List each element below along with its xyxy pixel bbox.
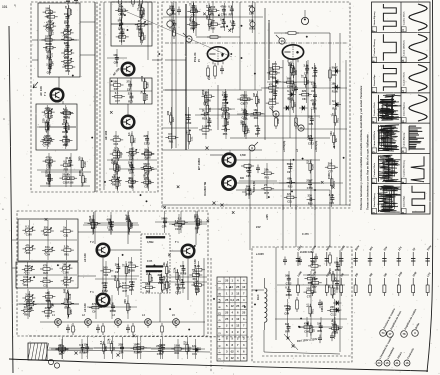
svg-text:390: 390 bbox=[115, 262, 120, 266]
svg-text:R91: R91 bbox=[307, 79, 310, 84]
svg-text:C140: C140 bbox=[119, 40, 126, 43]
svg-text:10: 10 bbox=[401, 150, 405, 154]
svg-text:220: 220 bbox=[144, 177, 149, 181]
svg-text:25: 25 bbox=[225, 311, 228, 315]
mains switch bbox=[284, 334, 298, 350]
svg-text:0,1: 0,1 bbox=[129, 177, 133, 181]
delay bar 3 bbox=[146, 270, 162, 272]
front controls row 1 bbox=[380, 308, 421, 338]
bus y150 bbox=[162, 149, 262, 151]
svg-text:C284 4kV: C284 4kV bbox=[321, 301, 324, 312]
svg-text:+230V(m): +230V(m) bbox=[315, 141, 318, 152]
svg-text:Cuadro 50c/s: Cuadro 50c/s bbox=[374, 162, 376, 177]
svg-text:T 2: T 2 bbox=[90, 240, 94, 244]
svg-text:Cuadro 50c/s: Cuadro 50c/s bbox=[374, 102, 376, 117]
svg-text:C112: C112 bbox=[120, 151, 123, 157]
svg-text:3,9k: 3,9k bbox=[118, 5, 124, 9]
wire down bbox=[249, 150, 251, 250]
IF lower parts bbox=[107, 131, 157, 189]
IF1 parts bbox=[111, 3, 152, 45]
svg-text:C140: C140 bbox=[84, 161, 87, 168]
svg-text:+275V(m): +275V(m) bbox=[283, 141, 286, 152]
svg-text:C140: C140 bbox=[228, 112, 231, 119]
wire bbox=[159, 293, 161, 322]
waveform cell 13 bbox=[401, 34, 427, 63]
wire bbox=[175, 2, 177, 148]
svg-text:0,1: 0,1 bbox=[122, 281, 126, 285]
svg-text:220: 220 bbox=[243, 94, 248, 98]
svg-text:12: 12 bbox=[231, 304, 234, 308]
svg-text:10n: 10n bbox=[243, 109, 248, 113]
IF line transistor Q1 bbox=[55, 319, 62, 328]
svg-text:C112: C112 bbox=[331, 314, 337, 317]
svg-text:R91: R91 bbox=[24, 314, 29, 317]
svg-text:C84: C84 bbox=[119, 351, 124, 354]
V1 lower parts bbox=[199, 89, 235, 129]
caption line 2 bbox=[366, 134, 370, 210]
video right extra bbox=[261, 63, 347, 113]
svg-text:Linea 15625c/s: Linea 15625c/s bbox=[403, 39, 405, 55]
svg-text:R108: R108 bbox=[312, 164, 315, 171]
transistor T3 AF106 bbox=[122, 116, 135, 129]
svg-text:C31: C31 bbox=[210, 14, 215, 17]
bottom parts 3 bbox=[151, 339, 205, 359]
svg-text:12k: 12k bbox=[113, 53, 118, 57]
svg-text:Cuadro 50c/s: Cuadro 50c/s bbox=[403, 11, 405, 26]
svg-text:C77: C77 bbox=[129, 172, 134, 175]
svg-text:100: 100 bbox=[221, 114, 225, 119]
svg-text:4700: 4700 bbox=[284, 304, 290, 308]
D extra 1 bbox=[83, 215, 139, 235]
svg-text:12: 12 bbox=[231, 356, 234, 360]
svg-text:C112: C112 bbox=[59, 352, 65, 355]
svg-text:AF 139: AF 139 bbox=[83, 303, 87, 312]
svg-text:5600: 5600 bbox=[161, 217, 167, 221]
dashed separator bbox=[210, 258, 212, 372]
svg-text:1k: 1k bbox=[202, 109, 205, 113]
IF extra parts bbox=[111, 5, 151, 43]
label BY138 bbox=[197, 158, 201, 170]
wire bbox=[62, 101, 64, 104]
wire bbox=[165, 60, 186, 90]
right cluster bbox=[279, 159, 343, 207]
svg-text:27: 27 bbox=[136, 7, 140, 10]
svg-text:50µF: 50µF bbox=[25, 264, 32, 268]
svg-text:27: 27 bbox=[144, 164, 147, 168]
svg-text:68k: 68k bbox=[128, 261, 133, 265]
svg-text:470: 470 bbox=[272, 62, 277, 66]
wire dashdot bbox=[165, 42, 348, 44]
wire bbox=[229, 150, 231, 153]
svg-text:0,5: 0,5 bbox=[64, 135, 68, 139]
tuner extra parts bbox=[41, 9, 77, 71]
tuner bottom extra bbox=[41, 156, 91, 187]
svg-text:3,9k: 3,9k bbox=[144, 149, 150, 153]
label T2 bbox=[112, 67, 121, 77]
transistor T6 AF139 bbox=[97, 244, 110, 257]
D right parts bbox=[169, 214, 207, 234]
svg-text:R91: R91 bbox=[46, 183, 51, 186]
svg-text:R55: R55 bbox=[258, 98, 261, 103]
svg-text:2,2k: 2,2k bbox=[45, 23, 49, 29]
svg-text:R108: R108 bbox=[134, 352, 141, 355]
waveform cell 7 bbox=[371, 4, 396, 32]
svg-text:18k: 18k bbox=[264, 168, 269, 172]
D right lower bbox=[167, 267, 207, 295]
svg-text:560: 560 bbox=[169, 4, 174, 8]
tuner mixer parts bbox=[37, 105, 76, 149]
svg-text:220: 220 bbox=[302, 89, 307, 93]
svg-text:0,1: 0,1 bbox=[127, 132, 131, 136]
transistor T4 BY138 bbox=[223, 154, 236, 167]
svg-text:C 270: C 270 bbox=[302, 233, 309, 236]
svg-text:390: 390 bbox=[328, 162, 333, 166]
wire bbox=[127, 211, 129, 244]
svg-text:1k: 1k bbox=[63, 226, 66, 230]
yoke coil DAC bbox=[265, 278, 267, 330]
svg-text:5600: 5600 bbox=[46, 159, 52, 163]
svg-text:100: 100 bbox=[222, 124, 227, 128]
tuner lower extra bbox=[39, 107, 76, 147]
D extra 6 bbox=[19, 291, 79, 317]
wire bbox=[236, 159, 320, 161]
svg-text:0,5: 0,5 bbox=[63, 160, 67, 164]
junction x marks bbox=[45, 13, 335, 338]
svg-text:1500: 1500 bbox=[333, 279, 339, 283]
svg-text:R55: R55 bbox=[151, 276, 154, 281]
svg-text:R55: R55 bbox=[26, 252, 31, 255]
wire bbox=[110, 249, 141, 251]
caption line 1 bbox=[359, 85, 363, 210]
svg-text:Cuadro 20mseg: Cuadro 20mseg bbox=[374, 39, 376, 56]
wire bbox=[195, 5, 197, 36]
svg-text:C84: C84 bbox=[114, 62, 119, 65]
bottom parts 2 bbox=[94, 337, 151, 359]
svg-text:10n: 10n bbox=[329, 131, 333, 136]
svg-text:13: 13 bbox=[401, 59, 405, 63]
paper bottom edge bbox=[9, 359, 428, 371]
svg-text:220: 220 bbox=[123, 299, 127, 304]
svg-text:47k: 47k bbox=[45, 107, 49, 112]
svg-text:C77: C77 bbox=[195, 273, 200, 276]
svg-text:C77: C77 bbox=[46, 168, 51, 171]
resistor 500ohm bbox=[289, 297, 298, 312]
svg-text:560: 560 bbox=[103, 265, 108, 269]
tube V1 PCL84 triode bbox=[207, 47, 228, 65]
svg-text:2,2k: 2,2k bbox=[208, 75, 211, 80]
E top labels bbox=[256, 251, 314, 256]
svg-text:50µF: 50µF bbox=[332, 65, 339, 69]
pots A bbox=[19, 220, 77, 260]
svg-text:0,1: 0,1 bbox=[222, 93, 226, 97]
svg-text:R61: R61 bbox=[128, 268, 131, 273]
transistor T8 AF139 bbox=[97, 294, 110, 307]
D mid parts bbox=[111, 257, 139, 295]
svg-text:R47: R47 bbox=[335, 137, 338, 142]
svg-text:C31: C31 bbox=[144, 186, 149, 189]
wire bbox=[40, 321, 205, 323]
bottom extra bbox=[49, 337, 201, 359]
svg-text:330: 330 bbox=[289, 63, 293, 68]
mid parts bbox=[241, 165, 260, 174]
waveform cell 4 bbox=[371, 95, 401, 123]
svg-text:1k: 1k bbox=[140, 90, 144, 93]
svg-text:R91: R91 bbox=[332, 108, 337, 111]
wire bbox=[78, 275, 96, 277]
wire bbox=[32, 22, 95, 60]
IF line transistor Q4 bbox=[145, 319, 152, 328]
D extra 4 bbox=[159, 261, 207, 293]
svg-text:560: 560 bbox=[46, 7, 51, 11]
svg-text:0,5: 0,5 bbox=[182, 341, 186, 345]
svg-text:R23: R23 bbox=[145, 173, 150, 176]
svg-text:25: 25 bbox=[225, 298, 228, 302]
svg-text:R23: R23 bbox=[168, 283, 171, 288]
svg-text:C77: C77 bbox=[129, 305, 132, 310]
svg-text:68k: 68k bbox=[46, 174, 51, 178]
svg-text:10n: 10n bbox=[84, 343, 89, 347]
wire bbox=[307, 60, 309, 138]
svg-text:4700: 4700 bbox=[119, 27, 125, 31]
svg-text:R55: R55 bbox=[295, 70, 298, 75]
wire bbox=[102, 256, 104, 294]
svg-text:3,9k: 3,9k bbox=[23, 275, 29, 279]
svg-text:12: 12 bbox=[231, 350, 234, 354]
svg-text:4700: 4700 bbox=[113, 134, 119, 138]
svg-text:C84: C84 bbox=[249, 13, 254, 16]
wire bbox=[152, 59, 162, 61]
waveform cell 12 bbox=[401, 65, 427, 94]
svg-text:0,4: 0,4 bbox=[218, 298, 222, 302]
transistor T2 AF200 bbox=[122, 63, 135, 76]
D top parts bbox=[84, 212, 138, 234]
svg-text:12: 12 bbox=[242, 285, 245, 289]
svg-text:C140: C140 bbox=[170, 13, 177, 16]
waveform cell 10 bbox=[401, 126, 425, 154]
E bottom caps bbox=[318, 333, 334, 344]
wire bbox=[210, 154, 223, 156]
svg-text:100: 100 bbox=[64, 27, 69, 31]
svg-text:R23: R23 bbox=[189, 346, 192, 351]
wire bbox=[94, 2, 96, 192]
svg-text:0,5: 0,5 bbox=[178, 217, 182, 221]
wire bbox=[254, 2, 256, 90]
svg-text:R108: R108 bbox=[70, 9, 73, 16]
frame IF1 bbox=[111, 2, 152, 46]
svg-text:C31: C31 bbox=[287, 201, 292, 204]
svg-text:o: o bbox=[2, 207, 4, 211]
svg-text:Todas las tensiones y corrient: Todas las tensiones y corrientes medidas… bbox=[359, 85, 363, 210]
block box IF amp bbox=[100, 2, 158, 192]
svg-text:10n: 10n bbox=[45, 245, 50, 249]
svg-text:C84: C84 bbox=[47, 71, 52, 74]
svg-text:C77: C77 bbox=[312, 286, 317, 289]
svg-text:4700: 4700 bbox=[209, 5, 215, 9]
svg-text:0,4: 0,4 bbox=[230, 298, 234, 302]
paper left edge bbox=[9, 26, 13, 373]
delay parts bbox=[142, 271, 169, 294]
transistor T5 OC26 bbox=[222, 176, 235, 189]
wire bbox=[252, 289, 264, 291]
svg-text:C31: C31 bbox=[43, 285, 48, 288]
svg-text:0,5: 0,5 bbox=[168, 132, 172, 136]
IF2 parts bbox=[110, 75, 152, 104]
svg-text:R91: R91 bbox=[129, 186, 134, 189]
frame tuner mixer bbox=[36, 104, 77, 150]
front controls row 2 bbox=[376, 336, 415, 366]
labels volts bbox=[283, 141, 318, 152]
waveform cell 6 bbox=[371, 34, 396, 62]
svg-text:BY 138/II: BY 138/II bbox=[197, 158, 201, 170]
svg-text:C31: C31 bbox=[202, 133, 207, 136]
wire bbox=[262, 355, 352, 357]
svg-text:R108: R108 bbox=[332, 332, 339, 335]
svg-text:68k: 68k bbox=[64, 56, 69, 60]
svg-text:390: 390 bbox=[193, 214, 197, 219]
svg-text:R91: R91 bbox=[195, 7, 198, 12]
svg-text:0,1: 0,1 bbox=[305, 303, 309, 307]
waveform cell 8 bbox=[401, 186, 425, 214]
svg-text:100: 100 bbox=[166, 110, 170, 115]
wire bbox=[275, 247, 277, 340]
corner marks bbox=[2, 3, 16, 9]
test point 11 bbox=[270, 108, 279, 117]
svg-text:R61: R61 bbox=[133, 137, 136, 142]
wire bbox=[58, 77, 60, 88]
svg-text:25: 25 bbox=[225, 317, 228, 321]
wire bbox=[12, 240, 17, 268]
svg-text:5600: 5600 bbox=[287, 162, 293, 166]
video left lower parts bbox=[162, 107, 198, 149]
wire bbox=[239, 2, 241, 90]
svg-text:50µF: 50µF bbox=[162, 275, 166, 282]
wire bbox=[289, 62, 291, 138]
svg-text:R47: R47 bbox=[129, 158, 134, 161]
svg-text:0,1: 0,1 bbox=[44, 297, 48, 301]
svg-text:R55: R55 bbox=[221, 26, 226, 29]
waveform cell 14 bbox=[401, 4, 427, 33]
svg-text:R47: R47 bbox=[84, 351, 89, 354]
svg-text:560: 560 bbox=[119, 9, 124, 13]
svg-text:R23: R23 bbox=[43, 272, 48, 275]
svg-text:12: 12 bbox=[236, 317, 239, 321]
wire to PSU 3 bbox=[314, 205, 316, 247]
svg-text:R47: R47 bbox=[114, 88, 119, 91]
svg-text:C112: C112 bbox=[308, 143, 314, 146]
svg-text:C84: C84 bbox=[312, 75, 317, 78]
svg-text:C84: C84 bbox=[246, 175, 251, 178]
svg-text:5600: 5600 bbox=[46, 42, 52, 46]
svg-text:R108: R108 bbox=[180, 273, 187, 276]
tube V2 PCL84 pentode bbox=[282, 45, 303, 63]
legend resistor wattages bbox=[296, 270, 432, 296]
svg-text:47k: 47k bbox=[222, 108, 226, 113]
svg-text:R61: R61 bbox=[146, 291, 151, 294]
pots B bbox=[17, 262, 77, 288]
svg-text:Linea 64µseg: Linea 64µseg bbox=[373, 193, 376, 207]
svg-text:T 1: T 1 bbox=[90, 290, 94, 294]
svg-text:R91: R91 bbox=[243, 118, 248, 121]
wire bbox=[203, 258, 205, 336]
transformer TR1 bbox=[28, 343, 49, 360]
res bbox=[275, 115, 298, 129]
svg-text:24V: 24V bbox=[256, 225, 261, 229]
wire bbox=[236, 182, 320, 184]
svg-text:3,9k: 3,9k bbox=[246, 166, 252, 170]
svg-text:25: 25 bbox=[218, 292, 222, 295]
IF line transistor Q5 bbox=[173, 319, 180, 328]
svg-text:C112: C112 bbox=[195, 22, 198, 28]
svg-text:0,5W: 0,5W bbox=[240, 154, 246, 157]
svg-text:R91: R91 bbox=[44, 234, 49, 237]
svg-text:12k: 12k bbox=[192, 344, 197, 348]
svg-text:R47: R47 bbox=[123, 290, 128, 293]
svg-text:3,9k: 3,9k bbox=[311, 81, 317, 85]
tuner lower parts bbox=[37, 153, 83, 187]
svg-text:C112: C112 bbox=[102, 290, 108, 293]
FI coils bbox=[167, 7, 181, 40]
svg-text:R108: R108 bbox=[332, 90, 339, 93]
svg-text:27: 27 bbox=[205, 5, 209, 8]
svg-text:101: 101 bbox=[2, 5, 8, 9]
svg-text:C140: C140 bbox=[45, 143, 52, 146]
svg-text:220: 220 bbox=[308, 114, 313, 118]
wire bbox=[264, 8, 266, 140]
svg-text:27: 27 bbox=[127, 80, 130, 84]
valve data table bbox=[217, 277, 247, 361]
circle top right bbox=[301, 10, 308, 25]
svg-text:600: 600 bbox=[240, 177, 245, 180]
svg-text:C77: C77 bbox=[269, 106, 274, 109]
svg-text:1500: 1500 bbox=[327, 173, 331, 179]
wire bbox=[345, 60, 347, 205]
svg-text:R61: R61 bbox=[178, 226, 183, 229]
svg-text:220: 220 bbox=[128, 92, 133, 96]
svg-text:C31: C31 bbox=[63, 181, 68, 184]
antenna arrow bbox=[33, 82, 38, 88]
svg-text:R55: R55 bbox=[84, 177, 87, 182]
test point 7 bbox=[183, 33, 192, 42]
svg-text:C31: C31 bbox=[191, 136, 194, 141]
svg-text:R23: R23 bbox=[142, 31, 145, 36]
svg-text:100k: 100k bbox=[277, 118, 280, 124]
waveform cell 11 bbox=[401, 95, 427, 123]
V1 cathode parts bbox=[207, 63, 224, 80]
label T3 bbox=[104, 130, 108, 140]
svg-text:C140: C140 bbox=[311, 107, 318, 110]
label DAC bbox=[256, 294, 260, 300]
svg-text:R61: R61 bbox=[66, 70, 71, 73]
wire bbox=[147, 2, 149, 60]
resistor top bbox=[274, 32, 330, 35]
svg-text:C112: C112 bbox=[175, 292, 181, 295]
svg-text:R47: R47 bbox=[195, 228, 200, 231]
svg-text:C140: C140 bbox=[221, 14, 228, 17]
svg-text:0,1: 0,1 bbox=[228, 5, 232, 9]
svg-text:+205: +205 bbox=[266, 214, 269, 220]
svg-text:R55: R55 bbox=[223, 133, 228, 136]
svg-text:R55: R55 bbox=[64, 284, 69, 287]
svg-text:4700: 4700 bbox=[140, 75, 144, 81]
svg-text:C77: C77 bbox=[328, 170, 333, 173]
svg-text:5600: 5600 bbox=[241, 120, 245, 126]
transformer circles bbox=[48, 359, 59, 368]
svg-text:25: 25 bbox=[236, 298, 239, 302]
svg-text:R91: R91 bbox=[64, 144, 69, 147]
wire bbox=[78, 231, 141, 233]
bottom parts 1 bbox=[51, 339, 93, 359]
wire to PSU 1 bbox=[282, 205, 284, 250]
